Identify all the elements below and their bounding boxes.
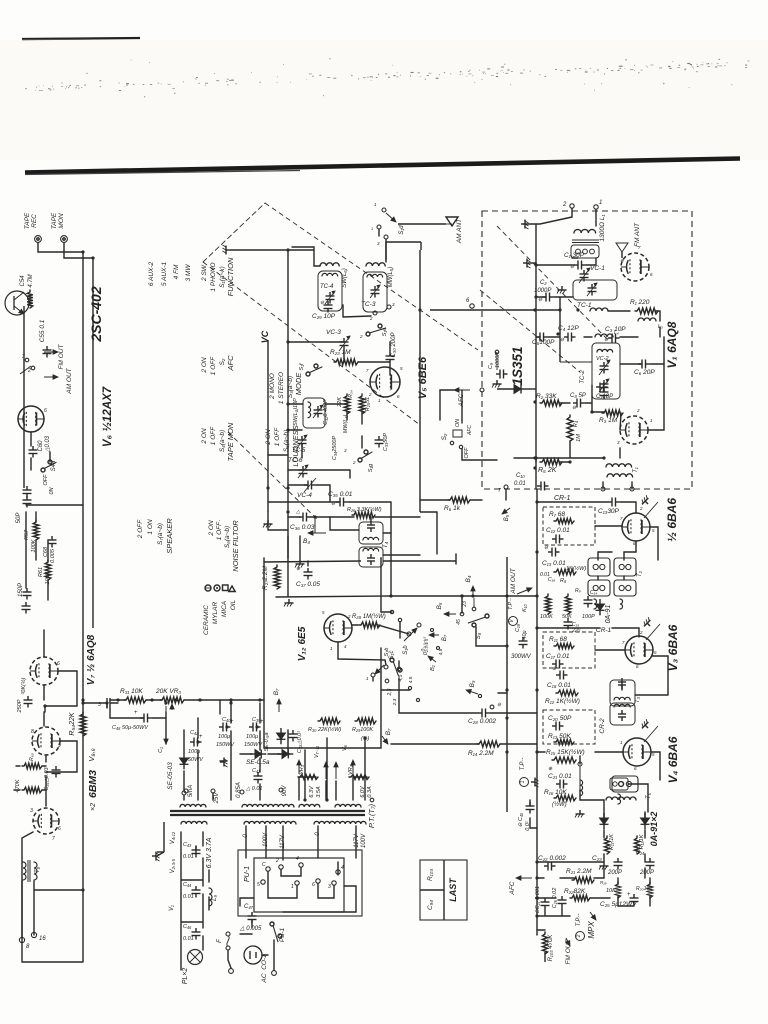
svg-text:⊖ C₄₅: ⊖ C₄₅ [518,812,524,827]
antenna FM ANT [616,222,641,258]
arrow FM OUT [44,350,58,354]
wire s2 [462,390,497,460]
svg-text:R₁₉: R₁₉ [600,880,607,885]
svg-text:C₃₈△0.0¹: C₃₈△0.0¹ [297,731,303,753]
ground am3 [263,520,273,528]
pu pin 3 [328,881,336,890]
svg-text:SPEAKER: SPEAKER [165,518,174,554]
svg-text:CERAMIC: CERAMIC [203,605,210,635]
capacitor C28 0.002 [468,702,502,725]
capacitor C7 18P [596,383,613,401]
svg-text:200P: 200P [639,870,654,876]
svg-text:2: 2 [576,934,582,938]
wire mid area [391,678,537,744]
svg-text:0₂,₃,₄,₅: 0₂,₃,₄,₅ [421,637,427,652]
resistor R61 100K [45,560,51,580]
arrow AFC fm [454,388,470,408]
svg-text:AC: AC [261,973,268,983]
label 45 23 [385,667,404,696]
label R103 cell [427,869,434,881]
svg-text:L₉: L₉ [212,895,218,901]
label 3 MW [185,264,192,282]
capacitor C13 0.01 [542,560,566,567]
svg-text:22K: 22K [337,397,343,408]
label SPEAKER [165,518,174,554]
svg-text:B₄: B₄ [303,538,310,545]
pilot lamp PL [182,950,203,985]
svg-text:VC-1: VC-1 [590,265,605,272]
label MODE [294,372,303,395]
svg-text:R₃₀ 22K(½W): R₃₀ 22K(½W) [308,726,341,733]
capacitor C10 0.01 [498,473,549,494]
terminal fm 2 [562,202,574,208]
svg-text:100μ: 100μ [246,734,258,740]
wire bus bottom [537,930,545,935]
resistor R25 51 [359,394,371,414]
label C60 0.03 [38,435,51,453]
svg-text:3: 3 [328,884,331,890]
svg-text:50K: 50K [562,614,572,620]
tube V9 out wire [22,832,83,962]
svg-text:R₂ 33K: R₂ 33K [536,393,557,400]
svg-text:R₁ 220: R₁ 220 [630,299,650,306]
svg-text:R₁₅ 15K(½W): R₁₅ 15K(½W) [546,748,585,756]
wire mid bus [506,557,508,812]
svg-text:2SC-402: 2SC-402 [88,286,104,342]
wire am top bus [230,242,421,250]
svg-text:C₄₄: C₄₄ [183,882,191,888]
pt secondary w3 [314,821,366,824]
svg-text:²0K(½): ²0K(½) [20,677,27,694]
label 5 AUX-1 [161,261,168,286]
svg-text:TC-2: TC-2 [580,370,586,384]
test point TP1 [520,758,529,787]
pin labels v8 [31,729,61,749]
svg-text:100μ: 100μ [218,734,230,740]
svg-text:B₄: B₄ [465,575,472,582]
junction dots 2 [81,248,605,701]
capacitor C22 0.002 [538,855,566,871]
arrow B7 rect [273,688,281,712]
svg-text:B₃: B₃ [469,680,476,687]
svg-text:VR₃: VR₃ [299,764,305,775]
fuse F [217,932,230,950]
svg-text:150WV: 150WV [216,742,235,748]
svg-text:6.3V 3.7A: 6.3V 3.7A [206,837,213,868]
coil L9 [209,888,218,906]
capacitor C15 220 [564,618,581,634]
label B7 ps [382,728,392,744]
svg-text:C₃₇ 0.05: C₃₇ 0.05 [296,581,320,588]
wire pu out [240,886,356,912]
resistor R18 1K [634,834,645,854]
svg-text:FM OUT: FM OUT [58,344,65,370]
tube V9 [33,808,59,834]
wire v2 t2 [624,541,636,552]
svg-text:S₁g: S₁g [368,463,374,472]
capacitor c misc [544,545,560,557]
svg-text:2: 2 [352,460,356,465]
legend OIL [229,586,237,610]
capacitor C38 0.01 [289,730,304,753]
label FM OUT b [565,938,572,964]
capacitor C1 30P [564,252,586,270]
svg-text:V₅ 6BE6: V₅ 6BE6 [417,356,429,399]
svg-text:V₄ 6BA6: V₄ 6BA6 [666,736,680,783]
svg-text:100P: 100P [582,614,595,620]
svg-text:6 AUX-2: 6 AUX-2 [148,261,155,286]
label AM OUT [66,367,73,394]
svg-text:B₇: B₇ [442,634,448,641]
switch PS-1 [270,922,286,942]
svg-text:MICA: MICA [221,601,228,617]
wire r60 col [14,766,46,790]
pt primary w3 [299,804,320,807]
label S7(a-b) [157,523,164,545]
switch S1b [403,623,421,655]
label 25V [211,789,220,804]
label TAPE MON col [226,422,235,461]
svg-text:C₄₈ 50μ-50WV: C₄₈ 50μ-50WV [112,725,149,731]
capacitor C27 0.001 [535,886,550,914]
svg-text:AFC: AFC [226,355,235,372]
svg-text:220: 220 [571,628,581,634]
label V4 6BA6 [666,736,680,783]
pu outer wire box [238,850,362,916]
dashed gang line 2 [203,262,420,425]
trimmer TC-5 [292,435,307,454]
switch cluster right of 6e5 [384,610,420,706]
svg-text:R₂₇2.2M: R₂₇2.2M [262,565,269,589]
wire mid links2 [381,512,456,564]
resistor R4 1M [567,415,582,442]
svg-text:2.3: 2.3 [392,698,398,706]
svg-text:VC-2: VC-2 [596,356,609,362]
ac terminal 1 [229,969,234,974]
resistor R12 1K [545,690,580,705]
capacitor C55 0.1 [43,346,52,358]
svg-text:5mA: 5mA [188,785,194,797]
wire t8 out [22,881,85,938]
resistor R23 1M [330,349,358,365]
resistor R30 22K [308,718,341,733]
capacitor C45 0.01 [518,802,535,831]
svg-text:1: 1 [371,226,373,231]
svg-text:R₃₁ 10K: R₃₁ 10K [120,688,143,695]
arrow B4 am [303,515,326,545]
svg-text:0A-91×2: 0A-91×2 [649,812,659,847]
svg-text:C₃₃50P: C₃₃50P [383,433,389,451]
label 02345 b [421,629,440,652]
svg-text:2: 2 [275,858,279,864]
label 2 MONO [269,373,276,400]
label V7-11 [314,746,320,758]
svg-text:C₉: C₉ [488,362,494,369]
label 1 OFF ld [274,427,281,446]
ground fm1 [521,220,529,230]
svg-text:MW(L₇): MW(L₇) [343,415,349,434]
pt secondary w1 [181,821,207,824]
wire fm afc link [440,390,454,420]
ground extra marks [295,560,609,870]
label S3(a-b) [287,376,294,398]
label LOUDNESS [291,425,300,466]
capacitor C3 10P [604,326,626,343]
label V12 6E5 [297,626,308,661]
switch S4a [41,460,57,486]
svg-text:MODE: MODE [294,372,303,395]
tube V4 6BA6 [623,738,651,766]
pu pin 5 [257,880,265,888]
filter box CR-1 b [543,632,595,669]
svg-text:VC-3: VC-3 [326,329,341,336]
svg-text:S₂: S₂ [219,358,226,365]
capacitor 250P [17,696,33,713]
label C94 cell [427,900,434,910]
label C16 [540,572,597,596]
arrow vr up 1 [297,760,301,774]
resistor R5 2K [538,459,562,474]
resistor R28 1M [352,613,386,628]
capacitor C46 0.01 [183,924,201,942]
tube V1a 6AQ8 [621,253,649,281]
svg-text:S₂: S₂ [441,433,448,440]
capacitor C25 5u [600,892,639,908]
dashed gang line 3 [228,432,318,520]
wire am extra rows [268,455,350,478]
dashed corner [203,203,265,262]
voltage tap 117Vb [354,833,367,848]
svg-text:1 ON: 1 ON [147,519,154,534]
resistor 470K [15,779,42,793]
tube V12 6E5 [324,614,352,642]
wire am bottom link [268,512,288,530]
svg-text:C55 0.1: C55 0.1 [39,319,46,342]
if transformer T3 [610,678,641,725]
label 2 OFF [137,519,144,539]
switch S1g [344,448,374,472]
svg-text:OFF: OFF [43,474,49,486]
svg-text:4 FM: 4 FM [173,264,180,279]
svg-text:T₄: T₄ [382,541,389,548]
capacitor C14 100P [582,596,595,620]
capacitor C39 100u [244,717,264,748]
svg-text:B₅: B₅ [436,602,443,609]
arrow B4 if [462,575,476,611]
svg-text:S₆(a~b): S₆(a~b) [224,526,231,548]
label LAST [448,877,458,902]
svg-text:R₂₂82K: R₂₂82K [564,888,586,895]
label CR-2 [599,718,606,734]
wire v4 [537,752,660,780]
label C54 4.7M [20,274,34,287]
svg-text:7: 7 [498,488,501,494]
rectifier SE-0.5a b [246,759,270,766]
svg-text:C₂₀ 50P: C₂₀ 50P [548,715,572,722]
svg-text:2: 2 [639,506,643,511]
resistor R1 220 [630,299,658,314]
label C68 0.005 [43,546,56,563]
svg-text:R₅ 2K: R₅ 2K [538,467,557,474]
capacitor bottom [22,602,31,614]
svg-text:CO-1: CO-1 [261,954,268,970]
wire det bus [604,868,650,898]
terminal TAPE MON [61,236,68,243]
svg-text:B₇: B₇ [385,728,392,735]
tube v5 pins [366,366,403,403]
svg-text:250P: 250P [17,699,23,713]
transistor Q1 2SC-402 [5,291,29,315]
wire 6e5 wires [288,536,409,681]
svg-text:C₁₃30P: C₁₃30P [598,508,620,515]
svg-text:1 OFF: 1 OFF [210,356,217,375]
svg-text:OIL: OIL [230,599,237,610]
svg-text:C₁₇ 0.01: C₁₇ 0.01 [546,653,570,660]
wire am mid [288,242,390,375]
legend MICA [221,585,228,617]
svg-text:(½W): (½W) [552,801,567,808]
tube V3 6BA6 [625,636,653,664]
svg-text:2 SW: 2 SW [201,264,208,282]
tube v1b pins [617,408,653,445]
svg-text:LAST: LAST [448,877,458,902]
coil SW(L6) [292,247,348,288]
svg-text:V₁ 6AQ8: V₁ 6AQ8 [665,321,679,368]
wire am right bus [419,250,421,512]
svg-text:3: 3 [30,808,33,814]
svg-text:2 MONO: 2 MONO [269,373,276,400]
svg-text:0.005: 0.005 [50,548,56,563]
coil L3 [638,318,663,330]
wire to am ant [379,224,446,260]
svg-text:0.01: 0.01 [183,854,194,860]
trimmer box TC-3 [361,272,395,321]
label S4(a-b) [219,430,226,452]
svg-text:T₅: T₅ [646,792,652,799]
svg-text:C₃₄2500P: C₃₄2500P [332,436,338,461]
capacitor C23 200P [607,858,623,876]
svg-text:AM ANT: AM ANT [456,218,463,244]
svg-text:R₁₁ 68: R₁₁ 68 [549,636,567,643]
svg-text:SE-05-03: SE-05-03 [167,762,174,790]
capacitor C21 0.01 [548,766,572,789]
svg-text:16: 16 [39,936,46,942]
wire r6 line [444,497,470,512]
svg-text:C60: C60 [38,440,44,452]
svg-text:+: + [627,892,631,898]
wire v6 links [31,432,83,505]
capacitor C29 10P [312,300,336,320]
svg-text:1M: 1M [576,434,582,442]
label V4,12 [170,831,176,844]
capacitor C8 5P [570,393,586,411]
svg-text:4.7M: 4.7M [28,274,34,287]
label CR-1 top [554,495,570,502]
varcap VC-3 [326,329,350,351]
svg-text:C₄₃: C₄₃ [183,842,192,848]
svg-text:C₃₀ 200P: C₃₀ 200P [391,333,397,358]
svg-text:SW(L₆): SW(L₆) [342,268,348,287]
wire t4 [330,517,420,555]
svg-text:R₉: R₉ [575,588,581,594]
svg-text:OFF: OFF [464,447,470,459]
svg-text:C54: C54 [20,275,26,287]
svg-text:FM ANT: FM ANT [634,222,641,247]
wire fm v2a [560,337,592,362]
svg-text:S₁b: S₁b [403,645,409,655]
svg-text:V₄,₁₂: V₄,₁₂ [170,831,176,844]
wire left col [23,306,25,488]
trimmer TC-6 [288,457,308,478]
diode det 2 [641,813,650,829]
wire am-if link [276,596,391,597]
wire tape mon to bus [64,243,93,258]
svg-text:K₁₀: K₁₀ [522,603,528,611]
svg-text:R₂₄: R₂₄ [348,390,354,398]
arrow B3 [466,680,482,697]
label 1300ohm L1 [599,215,606,242]
wire pu wires [246,826,356,898]
label AM OUT [510,567,532,594]
tube v1a pins [620,245,653,277]
label MPX [587,912,596,939]
svg-text:6: 6 [57,661,60,667]
svg-text:3 MW: 3 MW [185,264,192,282]
svg-text:T₁: T₁ [633,467,639,473]
label S1(a-k) [219,266,226,287]
capacitor C26 0.02 [552,888,567,909]
terminal afc edge [480,388,484,392]
svg-text:B₂: B₂ [430,664,436,671]
wire t2 links [598,552,624,580]
svg-text:S₇(a~b): S₇(a~b) [157,523,164,545]
label AFC [226,355,235,372]
svg-text:VC: VC [260,330,270,343]
capacitor C19 40u [511,623,532,660]
svg-text:TAPE: TAPE [51,212,58,229]
svg-text:MPX: MPX [587,921,596,939]
svg-text:2: 2 [359,334,363,339]
switch S1f [299,363,322,376]
wire r26 [288,516,420,518]
label C34 2500P [332,436,338,461]
svg-text:C₂: C₂ [540,280,547,286]
wire b area [391,594,537,646]
label 1 OFF [216,520,223,541]
switch S8 [468,614,489,639]
svg-text:6: 6 [312,882,315,888]
svg-text:TAPE: TAPE [24,212,31,229]
label VR4 [348,765,373,798]
capacitor C35 0.01 [328,491,353,507]
capacitor C48 50u [110,708,166,731]
svg-text:4.5: 4.5 [408,676,414,683]
capacitor C2 1000P [534,280,554,303]
label R57 100K [24,529,37,552]
svg-text:20K VR₃: 20K VR₃ [155,688,181,695]
svg-text:CR-1: CR-1 [554,495,570,502]
label TC-2 [580,370,586,384]
switch S1c [366,651,395,681]
tube v3 pins [622,617,660,669]
svg-text:B₇: B₇ [273,688,280,695]
svg-text:C₁₃ 0.01: C₁₃ 0.01 [542,560,566,567]
wire main right bus [536,489,538,935]
pu pin 4b [336,865,344,874]
svg-text:100V: 100V [361,833,367,848]
resistor 4.7M [27,290,33,308]
wire r6 stub [420,499,482,501]
